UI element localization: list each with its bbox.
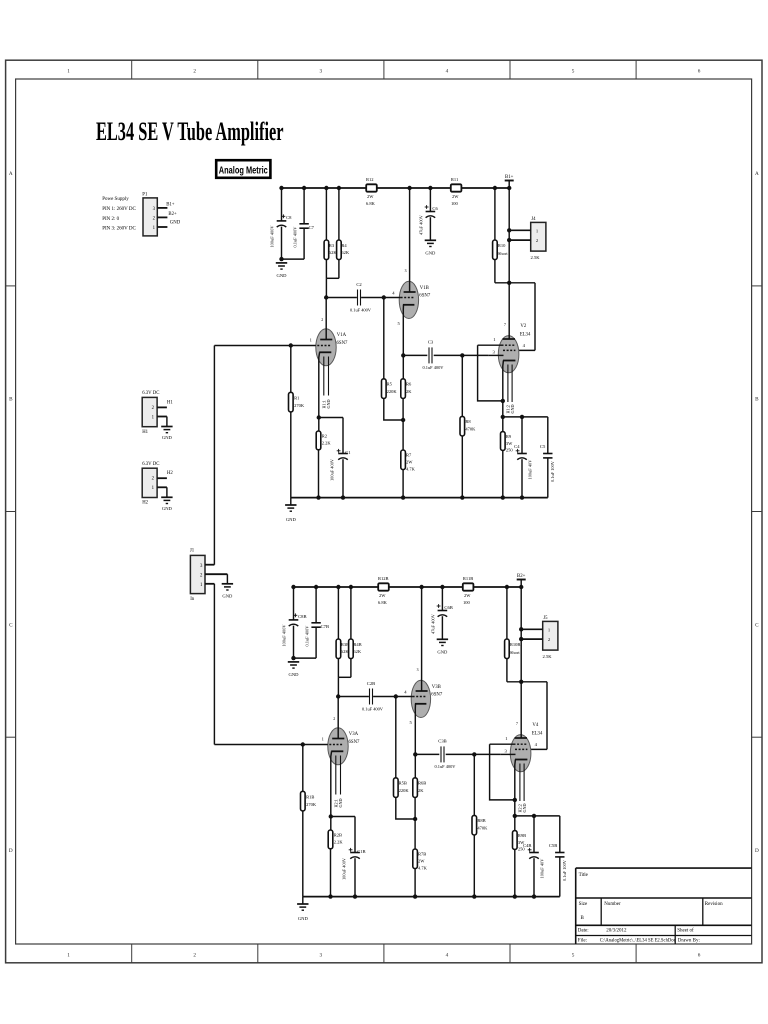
svg-text:100uF 400V: 100uF 400V	[269, 225, 274, 248]
connector J4	[531, 217, 546, 260]
svg-text:Date:: Date:	[578, 928, 589, 933]
svg-text:220K: 220K	[399, 788, 410, 793]
ground symbol at ground rail	[297, 897, 308, 921]
ground at filter caps	[276, 263, 287, 278]
capacitor C4B	[523, 816, 545, 899]
svg-text:5: 5	[572, 69, 575, 75]
wire screen grid drop	[527, 682, 547, 750]
svg-text:R5B: R5B	[399, 780, 407, 785]
wire H1 pin 1 to ground	[157, 417, 167, 427]
svg-text:C5: C5	[540, 444, 546, 449]
svg-text:100uF 400V: 100uF 400V	[281, 624, 286, 647]
svg-text:6SN7: 6SN7	[337, 341, 349, 346]
svg-text:0.1uF 100V: 0.1uF 100V	[562, 859, 567, 881]
wire J4 pin 2 stub	[509, 239, 531, 241]
svg-text:6SN7: 6SN7	[349, 740, 361, 745]
svg-text:C8B: C8B	[298, 614, 306, 619]
pentode V4 EL34	[490, 682, 543, 816]
border column ticks and numbers	[67, 60, 700, 963]
svg-text:B1+: B1+	[166, 202, 175, 207]
capacitor C8	[269, 186, 292, 259]
power terminal B2+	[517, 574, 526, 580]
svg-text:Sheet of: Sheet of	[677, 928, 694, 933]
svg-text:R7: R7	[406, 452, 412, 457]
wire H2 pin 1 to ground	[157, 487, 167, 497]
svg-text:6SN7: 6SN7	[419, 294, 431, 299]
svg-text:R6: R6	[406, 381, 412, 386]
svg-text:2.2K: 2.2K	[334, 840, 344, 845]
svg-text:V4: V4	[532, 723, 538, 728]
svg-text:C: C	[755, 622, 759, 628]
resistor R10	[493, 186, 509, 283]
svg-text:C6: C6	[432, 206, 438, 211]
svg-text:2W: 2W	[367, 194, 374, 199]
svg-text:R1B: R1B	[306, 794, 314, 799]
resistor R12	[366, 177, 377, 206]
border row ticks and letters	[6, 171, 762, 854]
svg-text:Short: Short	[498, 251, 509, 256]
svg-text:GND: GND	[298, 916, 309, 921]
svg-text:C6B: C6B	[444, 605, 452, 610]
svg-text:R5: R5	[387, 381, 393, 386]
svg-text:6.8K: 6.8K	[366, 201, 376, 206]
svg-text:R12: R12	[366, 177, 374, 182]
svg-text:J5: J5	[543, 616, 548, 621]
svg-text:2.2K: 2.2K	[322, 441, 332, 446]
svg-text:C7B: C7B	[321, 624, 329, 629]
svg-text:C3B: C3B	[438, 739, 446, 744]
ground at C6	[437, 639, 448, 654]
svg-text:A: A	[9, 171, 13, 177]
svg-text:470K: 470K	[477, 826, 488, 831]
svg-text:V3B: V3B	[432, 685, 441, 690]
resistor R3	[324, 186, 337, 278]
wire filter caps to ground	[279, 257, 304, 261]
svg-text:2: 2	[333, 717, 335, 721]
svg-text:0.1uF 400V: 0.1uF 400V	[304, 625, 309, 647]
svg-text:2: 2	[193, 953, 196, 959]
svg-text:H1: H1	[142, 430, 148, 435]
wire plate node to C2	[338, 694, 412, 698]
connector P1	[142, 192, 157, 236]
svg-text:250: 250	[506, 448, 514, 453]
resistor R10B	[505, 585, 521, 682]
svg-text:5: 5	[572, 953, 575, 959]
wire J5 pin 1 stub	[521, 628, 543, 630]
svg-text:PIN 2: 0: PIN 2: 0	[102, 217, 119, 222]
svg-text:100: 100	[463, 600, 471, 605]
svg-text:GND: GND	[222, 593, 233, 598]
ground symbol at ground rail	[285, 498, 296, 522]
wire V4 grid1 feedback loop	[490, 744, 517, 802]
svg-text:B: B	[755, 397, 759, 403]
net label H1:1 at V1A heater	[321, 399, 331, 408]
wire R10 bottom to screen node	[495, 282, 535, 284]
wire V4 cathode bus	[513, 814, 560, 818]
svg-text:R11: R11	[451, 177, 458, 182]
svg-text:2W: 2W	[418, 858, 425, 863]
svg-text:62K: 62K	[341, 250, 350, 255]
svg-text:C:\AnalogMetric\..\EL34 SE E2.: C:\AnalogMetric\..\EL34 SE E2.SchDoc	[600, 939, 677, 944]
resistor R1B	[301, 745, 317, 897]
svg-text:V3A: V3A	[349, 732, 359, 737]
svg-text:0.1uF 400V: 0.1uF 400V	[423, 365, 445, 370]
svg-text:C8: C8	[286, 215, 292, 220]
svg-text:GND: GND	[522, 803, 527, 812]
svg-text:B: B	[9, 397, 13, 403]
connector J5	[543, 616, 558, 659]
svg-text:100uF 400V: 100uF 400V	[341, 857, 346, 880]
power terminal B1+	[505, 175, 514, 181]
svg-text:J1: J1	[190, 549, 195, 554]
resistor R6B	[413, 778, 426, 819]
ground at H1	[161, 427, 172, 441]
svg-text:R12B: R12B	[378, 576, 389, 581]
wire screen grid drop	[515, 283, 535, 351]
wire V2 grid1 feedback loop	[478, 345, 505, 403]
wire B+ rail (B1+)	[282, 187, 510, 189]
wire input to V3A grid	[214, 742, 327, 746]
connector J1	[190, 549, 205, 602]
svg-text:4: 4	[446, 953, 449, 959]
svg-text:270K: 270K	[306, 802, 317, 807]
capacitor C1	[329, 418, 351, 498]
triode V3B 6SN7	[404, 585, 443, 778]
svg-text:6: 6	[698, 953, 701, 959]
ground at H2	[161, 497, 172, 511]
capacitor C8B	[281, 585, 306, 658]
svg-text:R1: R1	[294, 395, 299, 400]
ground at J1	[222, 584, 233, 599]
wire V3A cathode bus	[329, 814, 355, 818]
svg-text:47uF 400V: 47uF 400V	[431, 613, 436, 634]
svg-text:0.1uF 400V: 0.1uF 400V	[292, 226, 297, 248]
capacitor C5	[540, 417, 555, 498]
svg-text:Size: Size	[579, 902, 588, 907]
power supply note text	[102, 197, 136, 231]
svg-text:R10: R10	[498, 243, 506, 248]
svg-text:R10B: R10B	[510, 642, 521, 647]
sheet title text	[96, 117, 284, 146]
capacitor C5B	[549, 816, 567, 897]
resistor R2	[316, 418, 331, 498]
svg-text:H1: H1	[167, 400, 173, 405]
svg-text:GND: GND	[437, 650, 448, 655]
svg-text:Powe Supply: Powe Supply	[102, 197, 129, 202]
svg-text:R9: R9	[506, 434, 512, 439]
svg-text:3: 3	[417, 668, 419, 672]
svg-text:6.8K: 6.8K	[378, 600, 388, 605]
svg-text:V1A: V1A	[337, 333, 347, 338]
svg-text:7: 7	[504, 323, 506, 327]
svg-text:220K: 220K	[387, 389, 398, 394]
resistor R8B	[472, 754, 488, 898]
svg-text:B1+: B1+	[505, 175, 514, 180]
svg-text:R8: R8	[465, 419, 471, 424]
svg-text:Title: Title	[579, 873, 589, 878]
ground at filter caps	[288, 662, 299, 677]
resistor R8	[460, 355, 476, 499]
connector H1	[142, 391, 159, 435]
capacitor C6	[419, 186, 439, 241]
svg-text:R3: R3	[329, 243, 335, 248]
wire B+ rail (B2+)	[294, 586, 522, 588]
svg-text:R2B: R2B	[334, 832, 342, 837]
svg-text:3: 3	[320, 69, 323, 75]
svg-text:C4: C4	[514, 444, 520, 449]
wire V1A cathode bus	[317, 415, 343, 419]
Analog Metric logo box	[216, 160, 270, 178]
svg-text:2W: 2W	[406, 459, 413, 464]
svg-text:Drawn By:: Drawn By:	[678, 939, 700, 944]
net label H2:2 at V4 heater	[518, 803, 528, 812]
svg-text:GND: GND	[326, 399, 331, 408]
wire H2 pin 2 stub	[157, 477, 167, 479]
svg-text:C7: C7	[309, 225, 315, 230]
svg-text:P1: P1	[142, 192, 148, 197]
svg-text:3: 3	[405, 269, 407, 273]
wire ground rail	[303, 894, 560, 898]
svg-text:GND: GND	[162, 506, 173, 511]
resistor R11B	[463, 576, 474, 605]
svg-text:2W: 2W	[464, 593, 471, 598]
resistor R9B	[513, 816, 527, 899]
svg-text:C3: C3	[428, 340, 434, 345]
wire V2 cathode bus	[501, 415, 548, 419]
svg-text:V1B: V1B	[420, 286, 429, 291]
svg-text:File:: File:	[578, 939, 587, 944]
svg-text:3W: 3W	[506, 441, 513, 446]
svg-text:Number: Number	[604, 902, 621, 907]
svg-text:GND: GND	[162, 435, 173, 440]
svg-text:C2B: C2B	[367, 681, 375, 686]
svg-text:EL34: EL34	[532, 732, 543, 737]
capacitor C3B	[435, 739, 457, 769]
resistor R7	[401, 420, 416, 498]
svg-text:GND: GND	[338, 798, 343, 807]
resistor R9	[501, 417, 514, 500]
wire ground rail	[291, 495, 548, 499]
svg-text:D: D	[9, 848, 13, 854]
net label GND at P1	[170, 220, 181, 225]
capacitor C2B	[362, 681, 384, 712]
svg-text:0.1uF 100V: 0.1uF 100V	[550, 460, 555, 482]
title block labels	[578, 873, 723, 944]
capacitor C3	[423, 340, 445, 370]
svg-text:2: 2	[321, 318, 323, 322]
svg-text:4.7K: 4.7K	[406, 467, 416, 472]
svg-text:62K: 62K	[353, 649, 362, 654]
svg-text:470K: 470K	[465, 427, 476, 432]
svg-text:7: 7	[516, 722, 518, 726]
svg-text:C: C	[9, 622, 13, 628]
ground at C6	[425, 240, 436, 255]
svg-text:PIN 1: 260V DC: PIN 1: 260V DC	[102, 207, 136, 212]
svg-text:GND: GND	[170, 220, 181, 225]
wire driver cathode to V4 grid	[413, 752, 500, 756]
svg-text:EL34 SE V Tube Amplifier: EL34 SE V Tube Amplifier	[96, 117, 284, 146]
svg-text:B2+: B2+	[168, 212, 177, 217]
svg-text:2W: 2W	[379, 593, 386, 598]
svg-text:0.1uF 400V: 0.1uF 400V	[435, 764, 457, 769]
svg-text:R7B: R7B	[418, 851, 426, 856]
resistor R2B	[328, 817, 343, 897]
wire filter caps to ground	[291, 656, 316, 660]
svg-text:EL34: EL34	[520, 333, 531, 338]
capacitor C4	[514, 417, 532, 500]
capacitor C7	[292, 186, 314, 259]
net label B1+ at P1	[166, 202, 175, 207]
wire B1+ vertical to output section	[507, 181, 511, 285]
svg-text:1: 1	[67, 953, 70, 959]
wire R10 bottom to screen node	[507, 681, 547, 683]
svg-text:R11B: R11B	[463, 576, 473, 581]
svg-text:2K: 2K	[406, 389, 412, 394]
connector H2	[142, 462, 159, 506]
svg-text:H2: H2	[142, 501, 148, 506]
svg-text:R6B: R6B	[418, 780, 426, 785]
svg-text:0.1uF 400V: 0.1uF 400V	[362, 707, 384, 712]
svg-text:Revision: Revision	[705, 902, 723, 907]
svg-text:3: 3	[320, 953, 323, 959]
net label H1	[167, 400, 173, 405]
resistor R3B	[336, 585, 349, 678]
svg-text:100uF 400V: 100uF 400V	[329, 458, 334, 481]
svg-text:100uF 40V: 100uF 40V	[540, 858, 545, 879]
svg-text:C2: C2	[356, 282, 362, 287]
svg-text:2: 2	[193, 69, 196, 75]
wire input to V1A grid	[214, 343, 315, 347]
svg-text:4: 4	[446, 69, 449, 75]
capacitor C1B	[341, 817, 365, 897]
wire J4 pin 1 stub	[509, 229, 531, 231]
wire H1 pin 2 stub	[157, 406, 167, 408]
capacitor C2	[350, 282, 372, 313]
wire J1 pin 3 to top channel grid	[205, 346, 214, 565]
net label B2+ at P1	[168, 212, 177, 217]
resistor R6	[401, 379, 412, 420]
svg-text:2K: 2K	[418, 788, 424, 793]
svg-text:2.5K: 2.5K	[543, 654, 553, 659]
svg-text:GND: GND	[510, 404, 515, 413]
svg-text:R2: R2	[322, 433, 327, 438]
svg-text:R9B: R9B	[518, 833, 526, 838]
svg-text:6SN7: 6SN7	[431, 693, 443, 698]
svg-text:47uF 400V: 47uF 400V	[419, 214, 424, 235]
svg-text:D: D	[755, 848, 759, 854]
svg-text:6.3V DC: 6.3V DC	[142, 391, 159, 396]
svg-text:C5B: C5B	[549, 843, 557, 848]
svg-text:GND: GND	[277, 273, 288, 278]
svg-text:C4B: C4B	[523, 843, 531, 848]
wire J1 pin 1 to bottom channel grid	[205, 584, 214, 745]
capacitor C6B	[431, 585, 453, 640]
pentode V2 EL34	[478, 283, 531, 417]
svg-text:2.5K: 2.5K	[531, 255, 541, 260]
svg-text:Analog Metric: Analog Metric	[219, 166, 268, 177]
resistor R1	[289, 346, 305, 498]
resistor R5	[382, 298, 406, 423]
svg-text:100: 100	[451, 201, 459, 206]
wire J1 pin 2 to ground	[205, 574, 227, 584]
svg-text:6: 6	[698, 69, 701, 75]
svg-text:A: A	[755, 171, 759, 177]
svg-text:4.7K: 4.7K	[418, 866, 428, 871]
svg-text:2W: 2W	[452, 194, 459, 199]
svg-text:20/3/2012: 20/3/2012	[606, 928, 627, 933]
wire driver cathode to V2 grid	[401, 353, 488, 357]
triode V1B 6SN7	[392, 186, 431, 379]
svg-text:GND: GND	[289, 672, 300, 677]
svg-text:H2: H2	[167, 471, 173, 476]
svg-text:R4B: R4B	[353, 642, 361, 647]
svg-text:V2: V2	[520, 324, 526, 329]
svg-text:6.3V DC: 6.3V DC	[142, 462, 159, 467]
svg-text:0.1uF 400V: 0.1uF 400V	[350, 308, 372, 313]
capacitor C7B	[304, 585, 329, 658]
triode V1A 6SN7	[310, 295, 348, 417]
svg-text:100uF 40V: 100uF 40V	[528, 459, 533, 480]
wire plate node to C2	[326, 295, 400, 299]
svg-text:1: 1	[67, 69, 70, 75]
svg-text:R4: R4	[341, 243, 347, 248]
svg-text:GND: GND	[286, 517, 297, 522]
svg-text:R8B: R8B	[477, 818, 485, 823]
svg-text:PIN 3: 260V DC: PIN 3: 260V DC	[102, 227, 136, 232]
svg-text:In: In	[190, 597, 195, 602]
triode V3A 6SN7	[322, 694, 360, 816]
wire R3 R4 junction to plate node	[326, 278, 339, 297]
wire R3 R4 junction to plate node	[338, 677, 351, 696]
wire J5 pin 2 stub	[521, 638, 543, 640]
svg-text:J4: J4	[531, 217, 536, 222]
resistor R4	[337, 186, 350, 278]
resistor R5B	[394, 697, 418, 822]
svg-text:270K: 270K	[294, 403, 305, 408]
resistor R11	[451, 177, 462, 206]
resistor R12B	[378, 576, 389, 605]
svg-text:B2+: B2+	[517, 574, 526, 579]
net label H2	[167, 471, 173, 476]
svg-text:Short: Short	[510, 650, 521, 655]
title block	[576, 868, 752, 944]
resistor R4B	[349, 585, 362, 678]
wire P1 pin stubs	[157, 208, 167, 227]
net label H2:1 at V3A heater	[333, 798, 343, 807]
net label H1:2 at V2 heater	[506, 404, 516, 413]
svg-text:GND: GND	[425, 251, 436, 256]
wire B2+ vertical to output section	[519, 580, 523, 685]
resistor R7B	[413, 819, 428, 897]
